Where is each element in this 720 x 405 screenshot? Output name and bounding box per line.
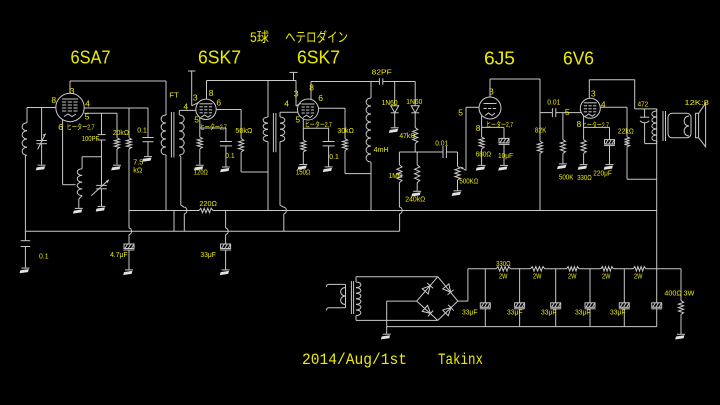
label 400Ω 3W <box>664 288 695 297</box>
svg-text:6: 6 <box>318 93 323 103</box>
svg-text:8: 8 <box>51 95 56 105</box>
label 82K <box>535 128 547 135</box>
heater label V2 <box>200 123 227 132</box>
bridge arm TR <box>438 277 458 301</box>
tube V3 6SK7 <box>298 99 319 120</box>
capacitor 0.1 V2 cathode <box>200 128 232 167</box>
pin 3 label V1 <box>70 86 75 96</box>
label 150Ω <box>296 170 311 177</box>
capacitor 220uF <box>584 127 615 164</box>
capacitor 0.1 screen V1 <box>143 108 154 156</box>
svg-text:Takinx: Takinx <box>438 351 483 369</box>
resistor 30k <box>342 139 371 174</box>
label 330Ω cathode <box>577 175 592 182</box>
svg-text:1N60: 1N60 <box>406 99 422 106</box>
svg-text:8: 8 <box>309 83 314 93</box>
svg-text:20kΩ: 20kΩ <box>113 130 129 137</box>
svg-text:82PF: 82PF <box>372 69 392 76</box>
label 220Ω <box>199 199 217 208</box>
wire 472 bottom <box>645 143 657 145</box>
svg-text:4: 4 <box>601 100 606 110</box>
label 82PF <box>372 69 392 76</box>
svg-text:ヒーター2,7: ヒーター2,7 <box>67 123 95 132</box>
pin 6 label V1 <box>58 122 63 132</box>
choke 4mH <box>366 82 371 211</box>
potentiometer 500K <box>455 107 466 190</box>
resistor 2W 2 <box>530 267 544 271</box>
resistor V4 cathode 680 <box>479 115 484 165</box>
ground 0.1 V3 <box>323 167 333 172</box>
label 20kΩ <box>113 130 129 137</box>
tube label 6V6 <box>563 48 594 69</box>
pin 8 label V1 <box>51 95 56 105</box>
svg-text:7.5: 7.5 <box>133 160 143 167</box>
pin 6 label V3 <box>318 93 323 103</box>
wire f3 <box>579 268 601 270</box>
svg-text:2W: 2W <box>602 273 611 280</box>
svg-text:FT: FT <box>169 91 179 100</box>
PT primary <box>341 284 346 307</box>
wire V3 screen <box>318 108 345 138</box>
resistor 240k <box>415 152 420 191</box>
IFT1 core <box>171 112 174 158</box>
resistor 500K grid <box>560 113 565 164</box>
capacitor 33uF filter 1 <box>480 269 491 327</box>
svg-text:1N60: 1N60 <box>382 100 398 107</box>
PT core <box>351 281 353 314</box>
svg-text:400Ω 3W: 400Ω 3W <box>664 288 695 297</box>
IFT1 secondary <box>179 110 196 231</box>
capacitor 33uF filter 2 <box>514 269 525 327</box>
svg-text:5: 5 <box>458 107 463 117</box>
label 472 <box>638 102 649 109</box>
wire V2 screen <box>216 110 241 139</box>
svg-text:150Ω: 150Ω <box>296 170 311 177</box>
tube V1 6SA7 <box>56 93 84 121</box>
ground 0.1 V2 <box>220 167 230 172</box>
svg-text:ヒーター2,7: ヒーター2,7 <box>200 123 227 132</box>
bridge arm BR <box>438 301 458 320</box>
label 33uF avc <box>200 252 216 259</box>
tube V2 6SK7 <box>196 99 216 119</box>
wire ant to grid <box>27 107 56 109</box>
resistor 82K <box>537 113 542 211</box>
wire f4 <box>613 268 633 270</box>
variable capacitor VC1 <box>36 108 47 165</box>
svg-text:0.01: 0.01 <box>547 100 560 107</box>
svg-text:33μF: 33μF <box>200 252 216 259</box>
resistor V5 cathode 330 <box>581 116 586 164</box>
resistor 400 3W <box>678 269 683 334</box>
bridge diode TR <box>443 284 454 295</box>
bridge diode BL <box>422 305 433 316</box>
resistor V3 cathode <box>301 119 306 164</box>
svg-text:2W: 2W <box>634 273 643 280</box>
label 1N60 first <box>382 100 398 107</box>
label FT <box>169 91 179 100</box>
svg-text:6: 6 <box>216 97 221 107</box>
svg-text:120Ω: 120Ω <box>194 169 208 176</box>
B+ bus <box>129 210 657 212</box>
label 120Ω <box>194 169 208 176</box>
resistor 7.5k <box>126 108 131 211</box>
top cap T V2 <box>188 71 198 106</box>
svg-text:ヒーター2,7: ヒーター2,7 <box>582 120 609 129</box>
svg-text:2W: 2W <box>568 273 577 280</box>
wire V3 plate <box>311 82 379 100</box>
svg-text:220Ω: 220Ω <box>199 199 217 208</box>
pin 3 label V2 <box>193 93 198 103</box>
svg-text:33μF: 33μF <box>462 310 478 317</box>
svg-text:6SA7: 6SA7 <box>71 47 111 68</box>
pin 5 label V4 <box>458 107 463 117</box>
label 4.7uF <box>110 252 128 259</box>
tube label 6J5 <box>484 48 515 69</box>
tube label 6SK7 first <box>198 47 241 68</box>
svg-text:6SK7: 6SK7 <box>198 47 241 68</box>
label 22kΩ <box>618 128 634 135</box>
wire f5 <box>646 268 681 270</box>
svg-text:5: 5 <box>194 115 199 125</box>
capacitor 472 <box>640 109 649 144</box>
ground 0.1 screen V1 <box>142 157 152 162</box>
ground 220uF <box>604 165 614 170</box>
diode D2 1N60 <box>411 82 419 128</box>
ground V4 cathode <box>476 165 486 170</box>
label 500KΩ <box>459 178 478 185</box>
svg-text:33μF: 33μF <box>541 310 557 317</box>
ground osc varcap <box>96 206 106 211</box>
pin 5 label V5 <box>565 107 570 117</box>
PSU ground bus <box>387 326 657 328</box>
capacitor 0.01 to 6V6 <box>540 108 582 117</box>
tube V4 6J5 <box>479 97 501 119</box>
label 240kΩ <box>405 197 425 204</box>
svg-text:472: 472 <box>638 102 649 109</box>
label 10uF <box>498 153 513 160</box>
svg-text:240kΩ: 240kΩ <box>405 197 425 204</box>
bridge arm BL <box>417 301 438 320</box>
label 2W 5 <box>634 273 643 280</box>
wire f2 <box>545 268 567 270</box>
label 4mH <box>374 147 389 154</box>
svg-text:33μF: 33μF <box>610 310 626 317</box>
OPT secondary loop <box>668 113 691 138</box>
ground osc coil <box>73 208 83 213</box>
ground V5 cathode <box>578 165 588 170</box>
heater label V3 <box>305 120 332 129</box>
label 0.1 ant <box>39 254 49 261</box>
svg-text:82K: 82K <box>535 128 547 135</box>
svg-text:33μF: 33μF <box>575 310 591 317</box>
oscillator coil L2 <box>77 169 82 208</box>
label 680Ω <box>476 151 492 158</box>
ground 4.7uF <box>123 270 133 275</box>
svg-text:2W: 2W <box>533 273 542 280</box>
OPT core <box>663 111 666 141</box>
capacitor 33uF last <box>651 269 662 327</box>
AC lead bottom <box>326 308 345 311</box>
wire V5 plate <box>589 80 656 109</box>
svg-text:3: 3 <box>193 93 198 103</box>
svg-text:8: 8 <box>209 88 214 98</box>
label 2W 3 <box>568 273 577 280</box>
variable capacitor VC2 <box>91 180 109 206</box>
resistor 2W 5 <box>633 267 646 271</box>
pin 5 label V1 <box>85 111 90 121</box>
svg-text:10μF: 10μF <box>498 153 513 160</box>
capacitor 33uF avc <box>220 211 231 270</box>
pin 8 label V3 <box>309 83 314 93</box>
label 1N60 second <box>406 99 422 106</box>
tube label 6SK7 second <box>297 47 340 68</box>
label 500K <box>559 174 574 181</box>
ground V2 cathode <box>194 165 204 170</box>
ground 10uF <box>498 165 508 170</box>
label 0.01 det <box>435 141 448 148</box>
capacitor 4.7uF <box>124 211 135 270</box>
svg-text:50kΩ: 50kΩ <box>235 128 252 135</box>
svg-text:500KΩ: 500KΩ <box>459 178 478 185</box>
resistor V2 cathode 120 <box>197 118 202 165</box>
heater label V5 <box>582 120 609 129</box>
B+ feed line <box>656 109 658 269</box>
bridge diode BR <box>443 305 454 316</box>
ground 400 <box>675 334 685 339</box>
label 2W 2 <box>533 273 542 280</box>
capacitor 10uF <box>482 127 510 165</box>
pin 4 label V3 <box>284 99 289 109</box>
label 47kΩ <box>399 133 415 140</box>
ground ant varcap <box>36 165 46 170</box>
ground 33uF avc <box>220 270 230 275</box>
label 1MΩ <box>389 173 403 180</box>
label 30kΩ <box>337 128 354 135</box>
ground PSU <box>381 334 391 339</box>
svg-text:330Ω: 330Ω <box>496 261 511 268</box>
label 7.5kΩ <box>133 160 143 175</box>
author text Takinx <box>438 351 483 369</box>
pin 8 label V4 <box>476 123 481 133</box>
ground D1 <box>389 128 399 133</box>
pin 8 label V5 <box>577 119 582 129</box>
top cap T V3 feed <box>289 72 297 80</box>
svg-text:kΩ: kΩ <box>133 167 142 174</box>
resistor 220 bias <box>199 208 213 212</box>
ground 500K <box>557 164 567 169</box>
pin 4 label V2 <box>183 102 188 112</box>
speaker <box>696 103 706 146</box>
capacitor 0.1 V3 <box>303 128 334 166</box>
label 220uF <box>593 171 612 178</box>
wire V4 plate <box>490 79 540 113</box>
bridge arm TL <box>417 277 438 301</box>
svg-text:5: 5 <box>295 114 300 124</box>
svg-text:2014/Aug/1st: 2014/Aug/1st <box>302 351 407 369</box>
heater label V4 <box>486 120 513 129</box>
wire V5 screen <box>600 107 627 137</box>
wire V1 plate <box>70 81 166 93</box>
IFT2 core <box>273 113 276 152</box>
svg-text:6V6: 6V6 <box>563 48 594 69</box>
svg-text:680Ω: 680Ω <box>476 151 492 158</box>
svg-text:1MΩ: 1MΩ <box>389 173 403 180</box>
label 0.1 screen V1 <box>137 127 147 134</box>
svg-text:8: 8 <box>476 123 481 133</box>
pin 6 label V2 <box>216 97 221 107</box>
label 0.01 af <box>547 100 560 107</box>
svg-text:4: 4 <box>284 99 289 109</box>
svg-text:0.01: 0.01 <box>435 141 448 148</box>
svg-text:100PF: 100PF <box>82 136 100 143</box>
diode D1 1N60 <box>391 82 399 128</box>
pin 3 label V5 <box>591 89 596 99</box>
ground 0.1 ant <box>20 268 30 273</box>
detector node wire <box>399 151 443 153</box>
OPT primary <box>652 109 657 144</box>
osc coil tap <box>63 120 76 185</box>
wire bridge minus <box>387 301 417 334</box>
label 33uF filter 2 <box>507 310 523 317</box>
label 12K:8 <box>684 98 709 107</box>
svg-text:6J5: 6J5 <box>484 48 515 69</box>
svg-text:5球: 5球 <box>250 30 269 45</box>
svg-text:2W: 2W <box>499 273 508 280</box>
label 33uF filter 5 <box>610 310 626 317</box>
svg-text:8: 8 <box>577 119 582 129</box>
svg-text:ヘテロダイン: ヘテロダイン <box>285 30 348 45</box>
AVC bus <box>25 230 399 232</box>
wire V2 plate rail <box>207 81 297 100</box>
AC lead top <box>326 284 345 287</box>
capacitor 100PF <box>98 113 106 185</box>
svg-text:500K: 500K <box>559 174 574 181</box>
resistor 330 2W <box>496 267 510 271</box>
pin 3 label V3 <box>294 88 299 98</box>
label 2W 4 <box>602 273 611 280</box>
ground 20k <box>111 165 121 170</box>
svg-text:0.1: 0.1 <box>39 254 49 261</box>
pin 8 label V2 <box>209 88 214 98</box>
PT secondary <box>356 277 361 321</box>
ground V3 cathode <box>298 165 308 170</box>
svg-text:ヒーター2,7: ヒーター2,7 <box>305 120 332 129</box>
tube label 6SA7 <box>71 47 111 68</box>
label 33uF filter 3 <box>541 310 557 317</box>
capacitor 0.01 coupling <box>443 146 458 158</box>
svg-text:0.1: 0.1 <box>137 127 147 134</box>
wire V1 pin4 <box>84 107 148 109</box>
wire sec top to bridge <box>356 276 438 278</box>
svg-text:47kΩ: 47kΩ <box>399 133 415 140</box>
resistor 20k <box>114 113 119 164</box>
wire rail to V3 grid <box>296 81 301 107</box>
bridge diode TL <box>422 283 433 294</box>
heater label V1 <box>67 123 95 132</box>
capacitor 33uF filter 5 <box>619 269 630 327</box>
pin 4 label V5 <box>601 100 606 110</box>
svg-text:0.1: 0.1 <box>329 154 339 161</box>
wire pot to grid <box>466 106 479 108</box>
resistor 47k <box>413 128 418 153</box>
label 0.1 V3 <box>329 154 339 161</box>
svg-text:0.1: 0.1 <box>225 153 235 160</box>
tube V5 6V6 <box>580 98 600 118</box>
ground 240k <box>411 191 421 196</box>
resistor 2W 3 <box>567 267 580 271</box>
IFT2 secondary <box>280 112 298 231</box>
resistor 2W 4 <box>601 267 614 271</box>
svg-text:3: 3 <box>591 89 596 99</box>
title text <box>250 30 348 45</box>
label 0.1 V2 <box>225 153 235 160</box>
svg-text:3: 3 <box>294 88 299 98</box>
svg-text:4.7μF: 4.7μF <box>110 252 128 259</box>
pin 4 label V1 <box>85 99 90 109</box>
capacitor 33uF filter 3 <box>550 269 561 327</box>
wire sec bottom to bridge <box>356 319 438 321</box>
pin 3 label V4 <box>489 86 494 96</box>
capacitor 33uF filter 4 <box>585 269 596 327</box>
label 50kΩ <box>235 128 252 135</box>
resistor 22k <box>624 137 656 179</box>
svg-text:4: 4 <box>85 99 90 109</box>
svg-text:22kΩ: 22kΩ <box>618 128 634 135</box>
wire f1 <box>511 268 531 270</box>
antenna coil L1 <box>22 108 27 232</box>
bus connector <box>173 211 175 232</box>
svg-text:33μF: 33μF <box>507 310 523 317</box>
ground pot <box>452 191 462 196</box>
resistor 1M <box>397 152 402 231</box>
label 2W 1 <box>499 273 508 280</box>
label 33uF filter 4 <box>575 310 591 317</box>
label 330Ω psu <box>496 261 511 268</box>
svg-text:6SK7: 6SK7 <box>297 47 340 68</box>
svg-text:5: 5 <box>565 107 570 117</box>
pin 5 label V3 <box>295 114 300 124</box>
wire bridge plus <box>458 269 496 301</box>
osc tank wire <box>82 157 101 169</box>
wire V1 pin5 <box>84 112 117 114</box>
IFT2 primary <box>263 81 268 211</box>
capacitor 82PF <box>379 78 415 85</box>
svg-text:330Ω: 330Ω <box>577 175 592 182</box>
label 33uF filter 1 <box>462 310 478 317</box>
svg-text:220μF: 220μF <box>593 171 612 178</box>
svg-text:30kΩ: 30kΩ <box>337 128 354 135</box>
svg-text:4: 4 <box>183 102 188 112</box>
capacitor 0.1 antenna <box>21 231 31 267</box>
resistor 50k screen <box>239 139 269 173</box>
date text <box>302 351 407 369</box>
pin 5 label V2 <box>194 115 199 125</box>
svg-text:4mH: 4mH <box>374 147 389 154</box>
IFT1 primary <box>161 81 166 211</box>
label 100PF <box>82 136 100 143</box>
